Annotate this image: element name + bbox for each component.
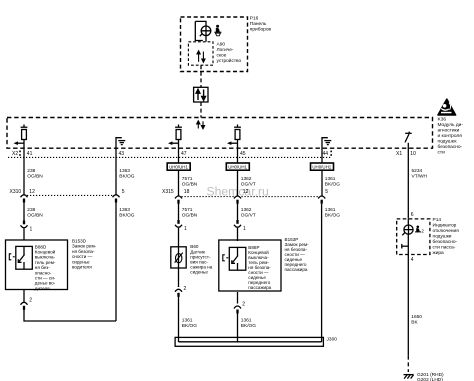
B88D switch contact	[18, 246, 24, 269]
X2 harness dotted line	[8, 156, 332, 158]
svg-text:K36: K36	[438, 117, 447, 123]
airbag person icon	[214, 25, 221, 36]
svg-text:VT/WH: VT/WH	[412, 174, 428, 180]
svg-text:UH0/UH1: UH0/UH1	[228, 165, 247, 170]
wire 6 to ground	[407, 255, 409, 356]
svg-text:1361: 1361	[325, 176, 336, 182]
K36 internal resistor on wire 3	[175, 125, 182, 149]
serial data wire (dashed) connector to K36	[200, 102, 202, 118]
svg-text:238: 238	[27, 168, 35, 174]
svg-text:1: 1	[243, 226, 246, 232]
pin 1 of B88D	[23, 221, 25, 225]
wire from B88D pin2	[23, 290, 25, 303]
pin 1 of B60	[177, 220, 179, 224]
wire 6 below K36	[407, 148, 409, 219]
left arrow on wire 3	[168, 141, 179, 145]
svg-text:ское: ское	[217, 53, 227, 58]
svg-text:Логиче-: Логиче-	[217, 47, 234, 53]
K36 internal ground on wire 5 (pin 44)	[322, 138, 331, 148]
B88P switch symbol housing	[229, 247, 246, 270]
svg-text:5: 5	[122, 189, 125, 195]
svg-text:водителя: водителя	[72, 265, 92, 270]
wire 3 to B60	[178, 203, 180, 224]
svg-text:1361: 1361	[325, 207, 336, 213]
wire from B88P pin2	[237, 292, 239, 304]
svg-text:X2: X2	[12, 151, 18, 157]
svg-text:OG/BN: OG/BN	[27, 213, 43, 219]
svg-text:43: 43	[119, 151, 125, 157]
svg-text:2: 2	[242, 302, 245, 308]
inline connector box with arrows	[194, 87, 208, 102]
svg-text:X310: X310	[10, 189, 22, 195]
svg-text:10: 10	[410, 151, 416, 157]
svg-text:X1: X1	[396, 151, 402, 157]
wire 4 to B88P	[237, 203, 239, 224]
K36 module dashed box	[7, 118, 433, 149]
pin 2 of B60	[175, 289, 182, 292]
svg-text:G202 (LHD): G202 (LHD)	[417, 377, 443, 381]
svg-text:A90: A90	[217, 41, 226, 47]
X315 connector symbol wire 4	[234, 196, 241, 204]
svg-text:1363: 1363	[119, 207, 130, 213]
svg-text:UH0/UH1: UH0/UH1	[169, 165, 188, 170]
svg-text:BK: BK	[411, 320, 418, 326]
svg-text:4: 4	[411, 257, 414, 263]
svg-text:устройство: устройство	[217, 57, 242, 64]
K36 internal switch on wire 6 (X1 pin 10)	[405, 132, 412, 149]
wire 5 below K36	[321, 148, 323, 196]
svg-text:агностики: агностики	[438, 129, 460, 134]
K36 internal resistor on wire 4	[234, 125, 241, 149]
svg-text:Модуль ди-: Модуль ди-	[438, 122, 464, 128]
svg-text:безопасно-: безопасно-	[433, 239, 458, 245]
svg-text:1363: 1363	[119, 168, 130, 174]
ground G201/G202	[404, 375, 414, 379]
X310 dotted line	[27, 194, 113, 196]
svg-text:отключения: отключения	[433, 229, 460, 234]
svg-text:1362: 1362	[241, 176, 252, 182]
wire 1 to B88D	[23, 202, 25, 224]
svg-text:2: 2	[29, 298, 32, 304]
B88P switch contact	[232, 247, 238, 270]
B88D switch symbol housing	[16, 246, 33, 269]
X315 connector symbol wire 5	[318, 196, 325, 204]
svg-text:238: 238	[27, 207, 35, 213]
wire through P14	[407, 219, 409, 255]
A90 logic device dashed box	[188, 42, 213, 65]
svg-text:12: 12	[243, 189, 249, 195]
option box UH0/UH1 wire 3	[167, 163, 190, 170]
left arrow on wire 1	[14, 141, 25, 145]
option box UH0/UH1 wire 4	[226, 163, 249, 170]
svg-text:подушек: подушек	[438, 140, 458, 145]
serial data wire (dashed) P16 to connector	[200, 65, 202, 87]
pin 2 of B88P	[234, 306, 241, 309]
svg-text:сиденье: сиденье	[190, 270, 208, 275]
splice pack J300	[175, 337, 323, 346]
svg-text:сти: сти	[438, 151, 446, 156]
svg-text:X315: X315	[162, 189, 174, 195]
indicator lamp (airbag warning lamp)	[195, 21, 211, 41]
B60 sensor symbol	[178, 247, 180, 268]
B88P seat belt switch box	[219, 240, 281, 291]
svg-text:P16: P16	[250, 15, 259, 21]
svg-text:18: 18	[184, 189, 190, 195]
K36 serial-data arrows inside box	[197, 121, 205, 129]
B60 passenger presence sensor box	[171, 247, 186, 268]
left arrow on wire 4	[227, 141, 238, 145]
wire to J300	[178, 286, 180, 287]
svg-text:приборов: приборов	[250, 26, 272, 32]
wire 4 below K36	[237, 148, 239, 196]
svg-text:5234: 5234	[412, 168, 423, 174]
svg-text:BK/OG: BK/OG	[119, 213, 134, 219]
P14 airbag icon	[415, 226, 421, 233]
svg-text:сти пасса-: сти пасса-	[433, 246, 456, 251]
wire 2 below K36	[115, 148, 117, 194]
wire 2 down to junction	[115, 202, 117, 321]
svg-text:подушки: подушки	[433, 235, 452, 240]
svg-text:1: 1	[30, 227, 33, 233]
svg-text:1362: 1362	[241, 207, 252, 213]
svg-text:1361: 1361	[182, 318, 193, 324]
svg-text:OG/BN: OG/BN	[182, 182, 198, 188]
airbag warning triangle	[438, 99, 456, 115]
dashed ground lead	[407, 356, 409, 372]
P14 contact symbol	[402, 244, 409, 249]
svg-text:5: 5	[325, 189, 328, 195]
svg-text:безопасно-: безопасно-	[438, 144, 463, 150]
X310 connector symbol wire 2	[113, 195, 120, 203]
B88D actuator E-	[9, 254, 15, 260]
svg-text:1361: 1361	[241, 318, 252, 324]
svg-text:и контроля: и контроля	[438, 134, 463, 139]
B88D seat belt switch box	[6, 240, 68, 290]
svg-text:2: 2	[184, 286, 187, 292]
pin 1 of B88P	[236, 220, 238, 224]
svg-text:41: 41	[27, 151, 33, 157]
svg-text:OG/VT: OG/VT	[241, 213, 256, 219]
svg-text:12: 12	[29, 189, 35, 195]
svg-text:OG/BN: OG/BN	[27, 174, 43, 180]
svg-text:дителя: дителя	[35, 286, 50, 291]
svg-text:Индикатор: Индикатор	[433, 223, 457, 229]
option box UH0/UH1 wire 5	[311, 163, 334, 170]
svg-text:BK/OG: BK/OG	[325, 182, 340, 188]
X310 connector symbol wire 1	[21, 195, 28, 203]
svg-text:пассажира: пассажира	[248, 285, 271, 290]
svg-text:P14: P14	[433, 217, 442, 223]
svg-text:OG/VT: OG/VT	[241, 182, 256, 188]
svg-text:1: 1	[184, 226, 187, 232]
A90 serial-data arrows	[197, 51, 205, 63]
svg-text:J300: J300	[327, 337, 338, 343]
X315 connector symbol wire 3	[175, 196, 182, 204]
P14 lamp	[402, 225, 413, 235]
svg-text:6: 6	[411, 212, 414, 218]
K36 internal ground on wire 2 (pin 43)	[116, 138, 125, 148]
wire to J300	[237, 313, 239, 343]
svg-text:BK/OG: BK/OG	[182, 323, 197, 329]
wire 1 below K36	[23, 148, 25, 194]
svg-text:7571: 7571	[182, 207, 193, 213]
svg-text:45: 45	[240, 151, 246, 157]
svg-text:UH0/UH1: UH0/UH1	[312, 165, 331, 170]
svg-text:жира: жира	[433, 251, 445, 256]
svg-text:BK/OG: BK/OG	[325, 213, 340, 219]
instrument panel P16 dashed box	[181, 17, 248, 72]
K36 internal resistor on wire 1	[21, 125, 28, 149]
wire L to junction with wire 2	[24, 309, 116, 321]
svg-text:BK/OG: BK/OG	[241, 323, 256, 329]
P14 passenger airbag disable indicator dashed box	[397, 219, 430, 255]
svg-text:пассажира: пассажира	[285, 267, 308, 272]
wire from B60 pin2	[178, 268, 180, 287]
wire 3 below K36	[178, 148, 180, 196]
svg-text:BK/OG: BK/OG	[119, 174, 134, 180]
svg-text:47: 47	[181, 151, 187, 157]
wire 5 down to J300	[321, 204, 323, 342]
svg-text:7571: 7571	[182, 176, 193, 182]
X315 dotted line	[182, 196, 320, 198]
svg-text:OG/BN: OG/BN	[182, 213, 198, 219]
svg-text:1650: 1650	[411, 314, 422, 320]
svg-text:Панель: Панель	[250, 21, 267, 27]
B88P actuator E-	[223, 255, 229, 261]
svg-text:44: 44	[323, 151, 329, 157]
pin 2 of B88D	[21, 302, 28, 305]
svg-text:Концевой: Концевой	[35, 249, 56, 255]
